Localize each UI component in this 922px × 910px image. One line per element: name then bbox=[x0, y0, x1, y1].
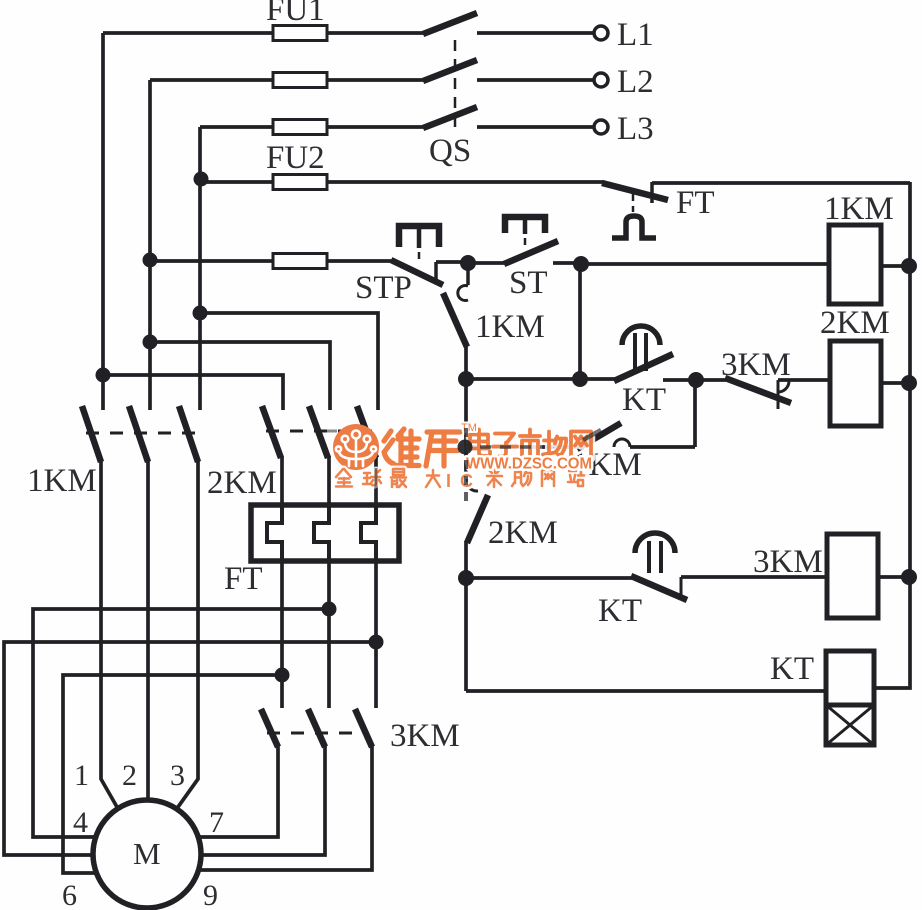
svg-text:KT: KT bbox=[598, 593, 642, 629]
svg-text:WWW.DZSC.COM: WWW.DZSC.COM bbox=[466, 456, 592, 473]
svg-text:3KM: 3KM bbox=[390, 718, 460, 754]
svg-text:3KM: 3KM bbox=[721, 347, 791, 383]
svg-text:1KM: 1KM bbox=[27, 463, 97, 499]
svg-text:7: 7 bbox=[209, 806, 224, 839]
svg-text:KT: KT bbox=[622, 382, 666, 418]
svg-text:2: 2 bbox=[122, 759, 137, 792]
svg-text:QS: QS bbox=[429, 133, 471, 169]
svg-text:STP: STP bbox=[355, 270, 412, 306]
svg-text:M: M bbox=[133, 836, 161, 871]
svg-text:2KM: 2KM bbox=[207, 465, 277, 501]
svg-text:1: 1 bbox=[74, 759, 89, 792]
svg-text:ST: ST bbox=[509, 265, 548, 301]
svg-text:2KM: 2KM bbox=[820, 305, 890, 341]
svg-text:2KM: 2KM bbox=[488, 515, 558, 551]
svg-text:FT: FT bbox=[676, 185, 715, 221]
svg-text:KT: KT bbox=[770, 651, 814, 687]
svg-text:TM: TM bbox=[461, 422, 477, 434]
svg-text:FT: FT bbox=[224, 561, 263, 597]
svg-text:3: 3 bbox=[170, 759, 185, 792]
svg-text:1KM: 1KM bbox=[475, 309, 545, 345]
svg-text:L2: L2 bbox=[617, 64, 654, 100]
svg-text:L1: L1 bbox=[617, 17, 654, 53]
svg-text:L3: L3 bbox=[617, 111, 654, 147]
svg-text:3KM: 3KM bbox=[753, 544, 823, 580]
svg-text:I: I bbox=[446, 471, 451, 491]
svg-text:6: 6 bbox=[62, 879, 77, 910]
svg-text:9: 9 bbox=[203, 879, 218, 910]
svg-text:FU2: FU2 bbox=[266, 140, 325, 176]
svg-text:FU1: FU1 bbox=[266, 0, 325, 28]
svg-text:4: 4 bbox=[73, 806, 88, 839]
svg-text:1KM: 1KM bbox=[824, 191, 894, 227]
